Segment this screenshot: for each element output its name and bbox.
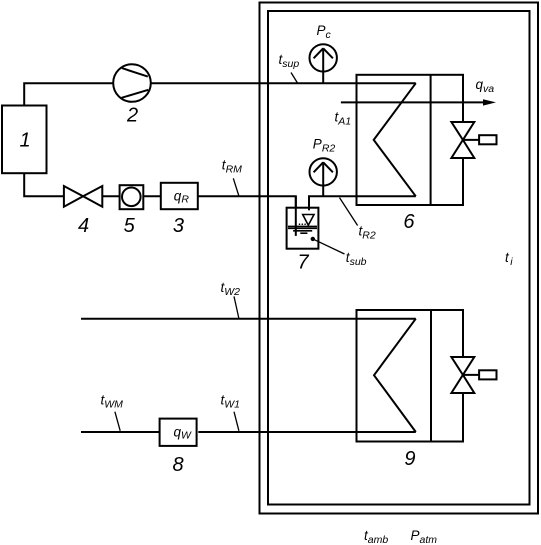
subcooling vessel 7 [287,208,319,249]
wire: sight glass 5 to flow meter 3 [143,195,161,197]
component number labels [19,105,415,476]
svg-text:9: 9 [404,448,415,470]
svg-text:6: 6 [403,211,415,233]
svg-text:1: 1 [19,129,30,151]
leader tW2 [234,296,239,318]
wire: vessel 7 outlet to coil 6 bottom [309,196,416,210]
liquid level mark in vessel 7 [288,215,317,234]
sight glass 5 [120,185,144,209]
wire: water return line tW2 [81,318,416,320]
heat exchanger coil 9 [357,310,464,442]
svg-text:tR2: tR2 [359,224,376,242]
damper valve of coil 6 [451,122,474,140]
compressor 2 [113,64,151,102]
leader tR2 [340,198,358,226]
leader tW1 [234,412,239,431]
svg-text:tA1: tA1 [335,110,352,128]
svg-text:8: 8 [172,454,183,476]
vessel 1 [2,106,47,174]
leader tsub [313,239,345,254]
svg-text:tRM: tRM [222,157,242,175]
leader tsup [291,73,298,84]
svg-text:4: 4 [78,215,89,237]
svg-text:tamb: tamb [364,528,388,545]
svg-text:Patm: Patm [411,528,438,545]
instrument point labels [101,23,514,545]
wire: discharge line from vessel 1 top via compressor 2 to coil 6 [24,83,416,105]
svg-text:Pc: Pc [317,23,332,41]
damper valve of coil 9 [451,357,474,375]
wire: meter 8 to coil 9 [198,431,415,433]
svg-text:tW1: tW1 [221,393,241,411]
leader tRM [233,178,239,196]
leader lines [115,73,358,431]
wire: valve 4 to sight glass 5 [102,195,119,197]
pressure gauge PR2 [310,158,337,185]
svg-text:tWM: tWM [101,393,124,411]
svg-text:tW2: tW2 [221,280,241,298]
wire: flow meter 3 to vessel 7 dip tube [198,196,296,236]
flow meter 3 [161,183,198,209]
air flow arrow qva [341,101,484,103]
test chamber outer wall [260,3,539,514]
svg-text:tsub: tsub [346,250,367,268]
svg-text:7: 7 [297,252,309,274]
svg-text:3: 3 [173,215,184,237]
pressure gauge Pc [310,44,337,71]
wire: water supply line to meter 8 [81,431,160,433]
leader dot tsub [311,237,315,241]
heat exchanger coil 6 [357,75,464,205]
wire: liquid line from vessel 1 bottom to valve 4 [24,173,64,196]
test chamber inner wall [268,11,530,505]
svg-text:2: 2 [126,105,138,127]
water meter 8 [160,419,197,446]
valve 4 [64,186,83,207]
svg-text:qva: qva [476,77,495,95]
svg-text:5: 5 [124,215,136,237]
svg-text:PR2: PR2 [313,137,336,155]
svg-text:ti: ti [505,250,513,268]
svg-text:tsup: tsup [279,52,300,70]
leader tWM [115,412,120,431]
